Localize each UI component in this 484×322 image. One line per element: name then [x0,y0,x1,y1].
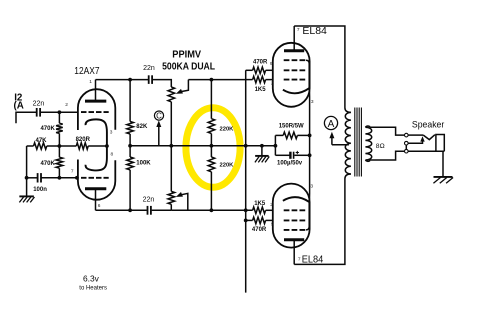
svg-text:2: 2 [270,202,273,208]
svg-text:1: 1 [89,79,92,85]
svg-text:7: 7 [298,257,301,263]
svg-text:12AX7: 12AX7 [74,66,99,77]
svg-text:470K: 470K [40,161,55,167]
svg-text:47K: 47K [35,138,47,144]
svg-text:22n: 22n [143,65,155,72]
svg-text:A: A [328,119,335,130]
svg-text:8: 8 [111,151,114,157]
svg-text:7: 7 [297,27,300,33]
svg-text:1K5: 1K5 [255,87,267,93]
svg-text:(A: (A [14,101,24,112]
svg-text:Speaker: Speaker [412,120,444,130]
svg-text:820R: 820R [76,137,91,143]
svg-text:9: 9 [270,61,273,67]
svg-text:3: 3 [311,99,314,105]
svg-text:100µ/50v: 100µ/50v [277,160,303,166]
svg-text:EL84: EL84 [302,254,324,265]
svg-text:1K5: 1K5 [254,201,266,207]
svg-text:100n: 100n [33,187,47,193]
svg-text:3: 3 [110,130,113,136]
svg-text:220K: 220K [220,163,235,169]
svg-text:7: 7 [71,168,74,174]
svg-text:82K: 82K [136,124,148,130]
svg-text:22n: 22n [143,196,155,203]
svg-text:C: C [156,112,162,121]
svg-text:9: 9 [271,221,274,227]
svg-text:6: 6 [98,203,101,209]
svg-text:470K: 470K [40,126,55,132]
svg-text:500KA DUAL: 500KA DUAL [162,62,216,73]
svg-text:EL84: EL84 [302,26,327,37]
svg-text:220K: 220K [220,126,235,132]
svg-text:470R: 470R [253,60,268,66]
svg-text:22n: 22n [33,101,45,108]
svg-text:6.3v: 6.3v [83,274,100,284]
svg-text:to Heaters: to Heaters [79,285,107,291]
svg-text:150R/5W: 150R/5W [279,124,304,130]
svg-text:2: 2 [271,80,274,86]
svg-text:3: 3 [310,183,313,189]
svg-text:2: 2 [65,102,68,108]
svg-text:470R: 470R [252,227,267,233]
svg-text:8Ω: 8Ω [376,143,385,150]
svg-text:100K: 100K [136,161,151,167]
svg-text:PPIMV: PPIMV [172,50,201,61]
